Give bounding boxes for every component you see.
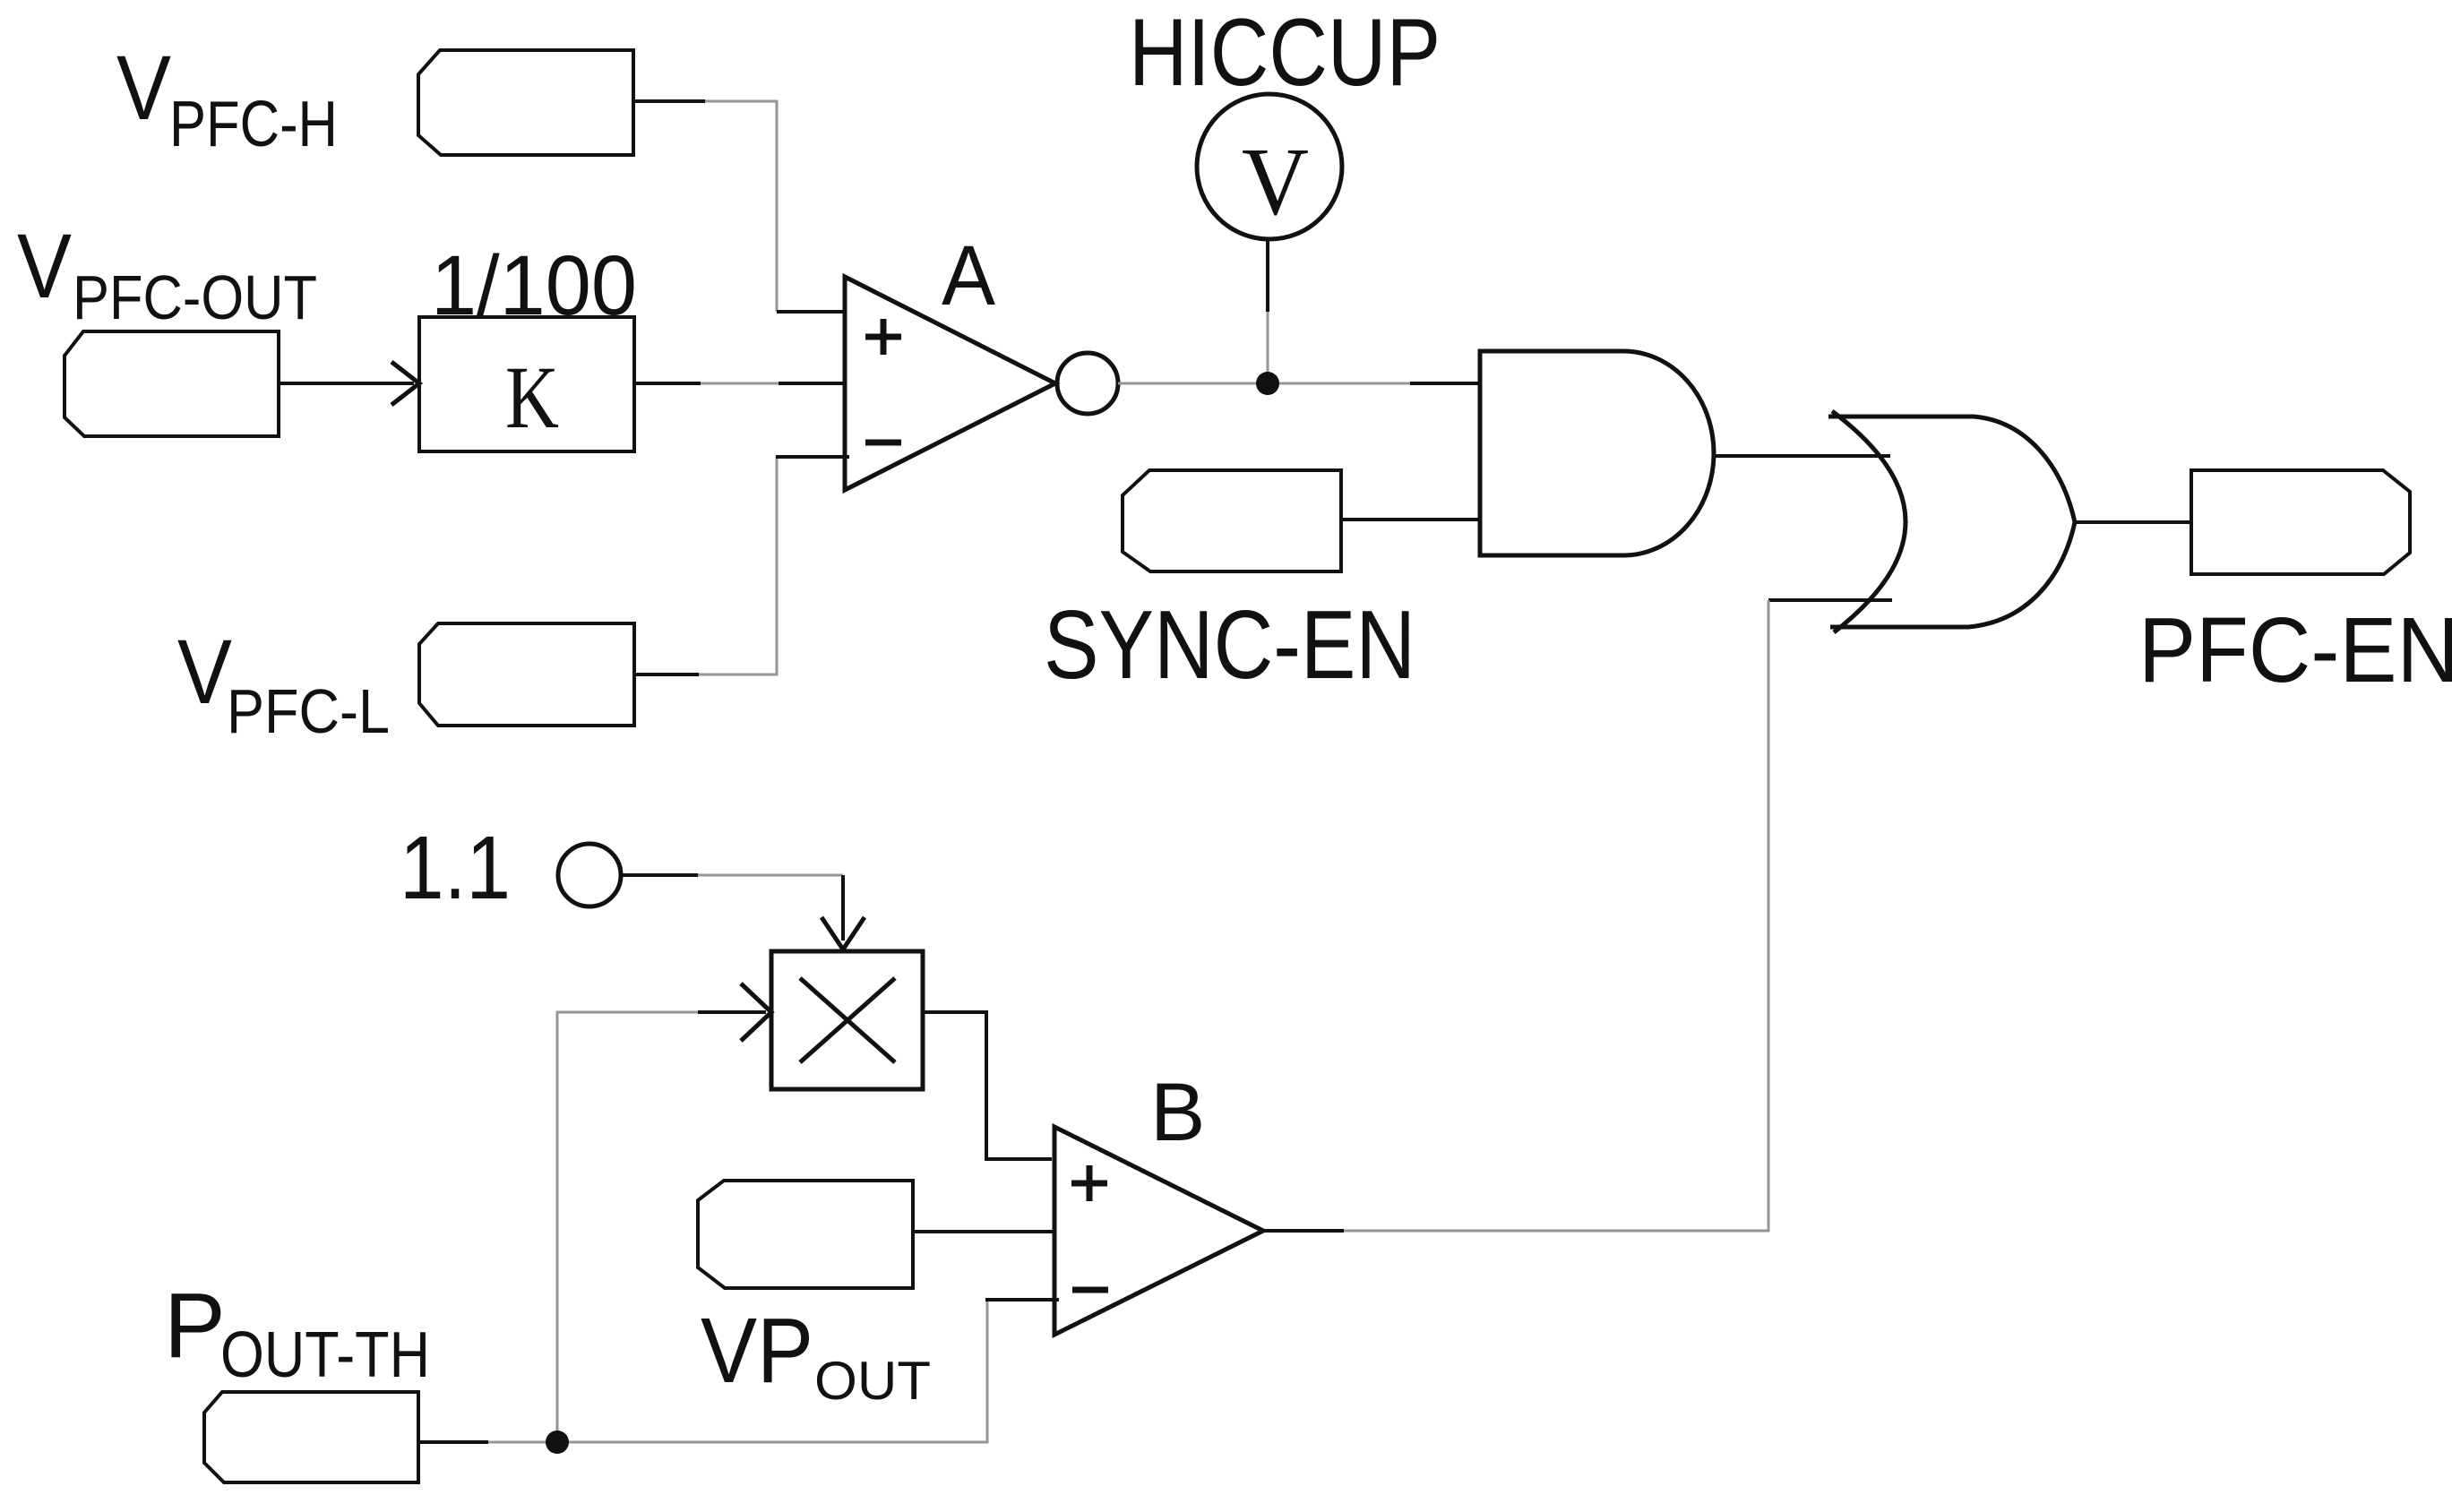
wire P_OUT-TH to junction and riser to comparator B - input xyxy=(418,1300,1059,1442)
tag P_OUT-TH xyxy=(204,1392,418,1482)
junction on P_OUT-TH node xyxy=(546,1430,569,1454)
wire VP_OUT to comparator B middle input xyxy=(913,1230,1054,1233)
svg-text:V: V xyxy=(17,215,72,317)
svg-text:PFC-EN: PFC-EN xyxy=(2138,598,2452,701)
svg-text:V: V xyxy=(1242,129,1309,236)
tag V_PFC-L xyxy=(419,623,634,726)
svg-text:K: K xyxy=(505,348,559,447)
node V_PFC-H label xyxy=(116,37,338,160)
junction on HICCUP node xyxy=(1256,372,1279,395)
comparator B xyxy=(1054,1127,1263,1335)
tag VP_OUT xyxy=(698,1181,913,1288)
wire AND to OR gate xyxy=(1714,454,1890,458)
svg-text:HICCUP: HICCUP xyxy=(1129,0,1441,106)
svg-text:PFC-H: PFC-H xyxy=(169,89,338,160)
svg-text:B: B xyxy=(1150,1067,1205,1158)
node V_PFC-L label xyxy=(177,621,390,746)
svg-text:OUT: OUT xyxy=(814,1351,931,1411)
svg-text:V: V xyxy=(116,37,171,139)
wire 1.1 to multiplier with arrowhead xyxy=(622,875,865,949)
svg-text:1/100: 1/100 xyxy=(431,238,637,333)
OR gate xyxy=(1828,411,2075,632)
wire V_PFC-OUT to K with arrowhead xyxy=(279,362,419,405)
wire V_PFC-L to comparator A - input xyxy=(634,457,849,674)
wire riser to multiplier left input with arrowhead xyxy=(557,984,771,1442)
svg-text:VP: VP xyxy=(701,1299,813,1402)
wire B output riser to OR gate second input xyxy=(1263,600,1892,1231)
wire V_PFC-H to comparator A + input xyxy=(633,101,845,312)
constant 1.1 terminal circle xyxy=(558,844,621,906)
wire SYNC-EN to AND gate xyxy=(1341,518,1480,521)
svg-text:OUT-TH: OUT-TH xyxy=(220,1319,430,1391)
node V_PFC-OUT label xyxy=(17,215,317,332)
node P_OUT-TH label xyxy=(164,1274,430,1391)
svg-text:1.1: 1.1 xyxy=(400,818,511,918)
svg-text:V: V xyxy=(177,621,232,723)
AND gate xyxy=(1480,351,1714,555)
tag SYNC-EN xyxy=(1123,470,1341,571)
tag V_PFC-OUT xyxy=(65,331,279,436)
voltage probe HICCUP xyxy=(1197,94,1342,383)
divider block K xyxy=(419,317,634,451)
wire OR output to PFC-EN xyxy=(2075,520,2191,524)
label VP_OUT xyxy=(701,1299,931,1411)
wire K to comparator A middle input xyxy=(634,382,845,385)
wire A output to AND gate xyxy=(1118,382,1480,385)
multiplier X box xyxy=(771,951,923,1089)
svg-text:P: P xyxy=(164,1274,226,1377)
tag PFC-EN xyxy=(2191,470,2410,574)
comparator A xyxy=(845,277,1118,490)
svg-text:PFC-L: PFC-L xyxy=(227,676,390,746)
tag V_PFC-H xyxy=(418,50,633,155)
svg-text:A: A xyxy=(942,228,996,323)
svg-text:PFC-OUT: PFC-OUT xyxy=(73,262,317,332)
wire multiplier output to comparator B + input xyxy=(923,1012,1052,1159)
svg-text:SYNC-EN: SYNC-EN xyxy=(1044,590,1415,700)
